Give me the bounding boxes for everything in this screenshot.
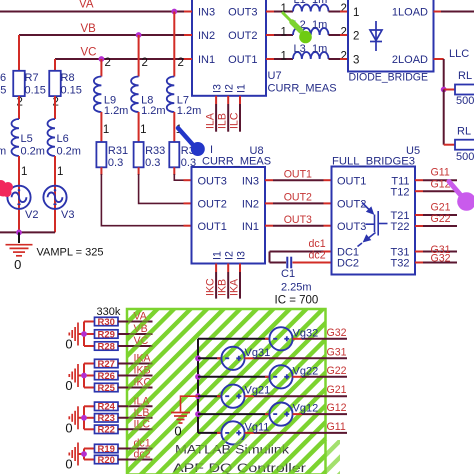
svg-text:T32: T32	[391, 258, 410, 270]
svg-text:R7: R7	[25, 72, 39, 84]
pin stub U7 OUT row L1	[266, 11, 274, 13]
wire Vg11 to net	[254, 432, 347, 434]
wire bus to Vg11	[198, 432, 221, 434]
svg-text:T22: T22	[391, 221, 410, 233]
inductor L8	[131, 77, 139, 113]
wire net IKC	[215, 272, 217, 299]
hatch overlay above controller caption text	[168, 440, 340, 474]
pin stub U7 OUT row L3	[266, 58, 274, 60]
wire net OUT2	[273, 202, 324, 204]
svg-text:LLC: LLC	[449, 48, 469, 60]
svg-text:G22: G22	[327, 365, 347, 377]
wire R35 to U8 OUT3	[174, 174, 183, 180]
pin stub U5 DC1	[324, 251, 332, 253]
pin stub R35 to U8 OUT3	[184, 179, 192, 181]
svg-text:R31: R31	[108, 145, 128, 157]
wire net G11	[423, 179, 457, 181]
blue pen cursor annotation	[178, 128, 205, 156]
pin stub diode bridge	[340, 34, 348, 36]
svg-text:0.3: 0.3	[145, 157, 160, 169]
wire Vg22 to net	[302, 376, 347, 378]
wire U7 to L1	[274, 11, 293, 13]
svg-text:I2: I2	[224, 84, 236, 93]
wire net dc1 to controller	[118, 448, 153, 450]
svg-text:G32: G32	[431, 253, 451, 265]
wire Vg21 to net	[254, 395, 347, 397]
svg-text:ILC: ILC	[229, 112, 241, 129]
wire VB to R7	[18, 35, 20, 71]
svg-text:0.3: 0.3	[108, 157, 123, 169]
ground 0 (sources)	[6, 245, 33, 256]
resistor R33	[134, 142, 144, 167]
wire R8 to L6	[54, 96, 56, 119]
resistor R28	[95, 342, 119, 350]
svg-text:G11: G11	[327, 421, 346, 433]
group dc1 dc2 wiring	[78, 449, 84, 460]
wire to resistor	[84, 345, 95, 347]
pin stub Vg12 plus	[293, 413, 302, 415]
wire 2LOAD down	[443, 59, 445, 90]
green hatched controller block background	[127, 309, 326, 474]
svg-text:0: 0	[14, 257, 21, 272]
svg-text:IN1: IN1	[198, 54, 215, 66]
svg-text:R6: R6	[0, 72, 6, 84]
svg-text:Vg32: Vg32	[293, 327, 319, 339]
pin stub Vg32 minus	[265, 338, 269, 340]
resistor R35	[169, 142, 179, 167]
wire to resistor	[84, 448, 95, 450]
svg-text:R26: R26	[97, 371, 114, 382]
svg-text:0.2m: 0.2m	[57, 146, 81, 158]
pin stub U5 right	[415, 225, 423, 227]
svg-text:OUT1: OUT1	[228, 54, 257, 66]
pin stub U7 bottom	[227, 96, 229, 104]
wire L2 to diode bridge	[329, 34, 341, 36]
pin stub Vg22 plus	[293, 376, 302, 378]
wire net OUT1	[273, 179, 324, 181]
wire net ILB to controller	[118, 417, 153, 419]
inductor L1	[293, 5, 329, 12]
svg-text:OUT1: OUT1	[198, 221, 227, 233]
svg-text:R33: R33	[145, 145, 165, 157]
wire dc2 to C1	[270, 262, 287, 264]
svg-text:CURR_MEAS: CURR_MEAS	[202, 156, 271, 168]
svg-text:0.15: 0.15	[25, 85, 46, 97]
resistor R29	[95, 330, 119, 338]
svg-text:1: 1	[281, 27, 287, 39]
wire net ILA	[215, 104, 217, 132]
inductor L2	[293, 28, 329, 35]
resistor RL2 (cut at edge)	[455, 140, 474, 150]
inductor L7	[167, 77, 174, 113]
svg-text:VA: VA	[79, 0, 94, 11]
resistor R30	[95, 317, 119, 325]
svg-text:FULL_BRIDGE3: FULL_BRIDGE3	[332, 156, 415, 168]
svg-text:RL: RL	[457, 126, 471, 138]
wire net ILA to controller	[118, 405, 153, 407]
voltage source V3	[43, 186, 66, 209]
wire L7 to R35	[173, 112, 175, 142]
wire L1 to diode bridge	[329, 11, 341, 13]
junction bus	[195, 374, 201, 380]
svg-text:2: 2	[105, 57, 111, 69]
svg-text:V2: V2	[25, 209, 38, 221]
dc source Vg31	[221, 347, 244, 370]
resistor RL1 (cut at edge)	[455, 85, 474, 95]
wire net IKB	[227, 272, 229, 299]
wire to resistor	[84, 363, 95, 365]
pin stub U8 bottom	[215, 264, 217, 273]
junction RL loads	[441, 87, 447, 93]
svg-text:1LOAD: 1LOAD	[392, 7, 428, 19]
junction group ILA ILB ILC	[81, 415, 87, 421]
svg-text:IKA: IKA	[229, 278, 241, 296]
wire bus to Vg12	[198, 413, 269, 415]
svg-text:G21: G21	[327, 384, 347, 396]
wire Vg31 to net	[254, 357, 347, 359]
svg-text:2: 2	[341, 3, 347, 15]
wire net ILC	[239, 104, 241, 132]
pin stub U7 OUT row L2	[266, 34, 274, 36]
wire Vg12 to net	[302, 413, 347, 415]
wire net IKC to controller	[118, 387, 153, 389]
wire down to L8	[138, 35, 140, 77]
wire net VC to controller	[118, 345, 153, 347]
svg-text:I1: I1	[212, 251, 224, 260]
voltage source V2	[7, 186, 30, 209]
wire to resistor	[84, 428, 95, 430]
svg-text:0: 0	[65, 337, 72, 352]
pin stub U7 left	[184, 58, 192, 60]
wire net VA to controller	[118, 321, 153, 323]
pin stub U8 bottom	[227, 264, 229, 273]
svg-text:CURR_MEAS: CURR_MEAS	[268, 83, 337, 95]
svg-text:IC = 700: IC = 700	[275, 295, 319, 307]
svg-text:1: 1	[103, 124, 109, 136]
svg-text:1m: 1m	[312, 19, 327, 31]
svg-text:L3: L3	[294, 43, 306, 55]
inductor L3	[293, 52, 329, 59]
svg-text:R27: R27	[97, 359, 114, 370]
ground 0 (group IKA IKB IKC)	[69, 364, 78, 387]
pin stub 2LOAD	[434, 58, 444, 60]
junction bus	[195, 393, 201, 399]
wire net VB to controller	[118, 333, 153, 335]
svg-text:ILB: ILB	[217, 113, 229, 129]
svg-text:OUT3: OUT3	[198, 175, 227, 187]
junction group dc1 dc2	[81, 451, 87, 457]
dc source Vg12	[269, 403, 292, 426]
svg-text:Vg31: Vg31	[245, 347, 271, 359]
inductor L9	[94, 77, 102, 113]
svg-text:VC: VC	[81, 47, 97, 59]
wire R33 to U8 OUT2	[139, 174, 184, 203]
svg-text:2LOAD: 2LOAD	[392, 54, 428, 66]
svg-text:C1: C1	[281, 268, 295, 280]
svg-text:I3: I3	[212, 84, 224, 93]
red marker blob annotation	[0, 180, 13, 197]
pin stub U7 bottom	[215, 96, 217, 104]
svg-text:DIODE_BRIDGE: DIODE_BRIDGE	[349, 72, 429, 84]
svg-text:IN1: IN1	[242, 221, 259, 233]
junction bus	[195, 411, 201, 417]
svg-text:I3: I3	[236, 251, 248, 260]
pin stub U5 left	[324, 179, 332, 181]
wire to RL2	[444, 144, 455, 146]
svg-text:OUT3: OUT3	[228, 7, 257, 19]
svg-text:1.2m: 1.2m	[177, 105, 201, 117]
svg-text:2.25m: 2.25m	[281, 282, 312, 294]
pin stub U5 right	[415, 251, 423, 253]
pin stub U8 bottom	[239, 264, 241, 273]
svg-text:G22: G22	[431, 213, 451, 225]
pin stub U5 right	[415, 190, 423, 192]
svg-text:0.15: 0.15	[61, 85, 82, 97]
svg-text:I1: I1	[236, 84, 248, 93]
svg-text:OUT3: OUT3	[337, 221, 366, 233]
svg-text:1: 1	[140, 124, 146, 136]
wire to resistor	[84, 321, 95, 323]
wire R31 to U8 OUT1 stub	[100, 167, 102, 175]
svg-text:VB: VB	[81, 23, 97, 35]
svg-text:2: 2	[341, 51, 347, 63]
pin stub Vg11 plus	[245, 432, 254, 434]
svg-text:T12: T12	[391, 186, 410, 198]
svg-text:R8: R8	[61, 72, 75, 84]
wire net dc2 to controller	[118, 459, 153, 461]
wire to resistor	[84, 417, 95, 419]
junction net to L8	[136, 32, 142, 38]
svg-text:ILA: ILA	[205, 112, 217, 129]
wire net VC	[55, 58, 192, 60]
pin stub U7 bottom	[239, 96, 241, 104]
svg-text:2: 2	[341, 27, 347, 39]
svg-text:V3: V3	[61, 209, 74, 221]
wire R33 to U8 OUT2 stub	[138, 167, 140, 175]
pin stub U5 DC2	[324, 262, 332, 264]
wire down to L9	[100, 59, 102, 77]
wire bus to Vg31	[198, 357, 221, 359]
svg-text:R28: R28	[97, 341, 114, 352]
junction group IKA IKB IKC	[81, 373, 87, 379]
resistor R26	[95, 371, 119, 379]
pin stub U7 left	[184, 34, 192, 36]
wire L8 to R33	[138, 112, 140, 142]
svg-text:R23: R23	[97, 413, 114, 424]
svg-text:L1: L1	[294, 0, 306, 6]
transistor symbol inside U5	[358, 203, 388, 247]
svg-text:L6: L6	[57, 133, 69, 145]
wire dc loop vertical	[269, 252, 271, 263]
svg-text:G32: G32	[327, 327, 347, 339]
wire L3 to diode bridge	[329, 58, 341, 60]
group IKA IKB IKC wiring	[78, 364, 84, 388]
wire to resistor	[84, 405, 95, 407]
svg-text:G12: G12	[327, 402, 347, 414]
wire to resistor	[84, 375, 95, 377]
svg-text:R25: R25	[97, 383, 115, 394]
wire net G32	[423, 262, 457, 264]
svg-text:OUT2: OUT2	[228, 30, 257, 42]
wire bus to Vg22	[198, 376, 269, 378]
IC block DIODE_BRIDGE	[348, 0, 434, 72]
wire junction to RL1	[444, 89, 455, 91]
svg-text:1m: 1m	[312, 0, 327, 6]
svg-text:IN3: IN3	[242, 175, 259, 187]
svg-text:1: 1	[281, 51, 287, 63]
svg-text:VAMPL = 325: VAMPL = 325	[37, 247, 104, 259]
svg-text:I: I	[210, 144, 213, 156]
svg-text:U7: U7	[268, 70, 282, 82]
resistor R7	[13, 71, 25, 96]
ground 0 (group dc1 dc2)	[69, 443, 78, 466]
svg-text:2: 2	[142, 57, 148, 69]
pin stub U5 right	[415, 262, 423, 264]
svg-text:IKB: IKB	[217, 279, 229, 296]
wire down to L7	[173, 12, 175, 77]
svg-text:1: 1	[21, 166, 27, 178]
svg-text:OUT1: OUT1	[284, 168, 312, 180]
wire net G21	[423, 214, 457, 216]
svg-text:0: 0	[65, 457, 72, 472]
group VA VB VC wiring	[78, 322, 84, 347]
svg-text:RL: RL	[458, 70, 472, 82]
wire bus to Vg21	[198, 395, 221, 397]
svg-text:Vg12: Vg12	[293, 403, 319, 415]
svg-text:R29: R29	[97, 329, 114, 340]
svg-text:OUT1: OUT1	[337, 175, 366, 187]
pin stub U8 right	[265, 202, 273, 204]
IC block U7 CURR_MEAS	[192, 0, 266, 96]
pin stub diode bridge	[340, 58, 348, 60]
svg-text:1m: 1m	[312, 43, 327, 55]
pin stub Vg21 minus	[217, 395, 221, 397]
svg-text:2: 2	[178, 57, 184, 69]
wire net OUT3	[273, 225, 324, 227]
resistor R23	[95, 414, 119, 422]
pin stub U5 right	[415, 214, 423, 216]
wire VC to R8	[54, 59, 56, 71]
svg-text:1.2m: 1.2m	[141, 105, 165, 117]
pin stub Vg31 minus	[217, 357, 221, 359]
wire net VA	[0, 11, 192, 13]
ground 0 (group VA VB VC)	[69, 323, 78, 346]
svg-text:m: m	[0, 146, 6, 158]
junction net to L9	[99, 56, 105, 62]
resistor R8	[49, 71, 61, 96]
inductor L5	[12, 119, 19, 156]
junction bus	[195, 355, 201, 361]
wire L6 through V3 to bus	[54, 156, 56, 232]
resistor R19	[95, 444, 119, 452]
wire R35 to U8 OUT3 stub	[173, 167, 175, 175]
hatch overlay above net label strip	[128, 311, 155, 474]
junction net to L7	[171, 9, 177, 15]
svg-text:R19: R19	[97, 444, 114, 455]
wire R31 to U8 OUT1	[101, 174, 183, 226]
IC block U5 FULL_BRIDGE3	[332, 167, 416, 275]
svg-text:I2: I2	[224, 251, 236, 260]
wire net G22	[423, 225, 457, 227]
svg-text:R22: R22	[97, 425, 114, 436]
svg-text:0.15: 0.15	[0, 85, 6, 97]
svg-text:IN2: IN2	[198, 30, 215, 42]
pin stub Vg12 minus	[265, 413, 269, 415]
svg-text:0: 0	[65, 420, 72, 435]
svg-text:G21: G21	[431, 202, 451, 214]
pin stub R31 to U8 OUT1	[184, 225, 192, 227]
pin stub U5 left	[324, 202, 332, 204]
wire bus to Vg32	[198, 338, 269, 340]
pin stub Vg32 plus	[293, 338, 302, 340]
pin stub Vg31 plus	[245, 357, 254, 359]
wire to resistor	[84, 459, 95, 461]
svg-text:OUT2: OUT2	[337, 199, 366, 211]
wire net VB	[19, 34, 192, 36]
wire net G12	[423, 190, 457, 192]
group ILA ILB ILC wiring	[78, 406, 84, 429]
pin stub U8 right	[265, 179, 273, 181]
resistor R25	[95, 383, 119, 391]
svg-text:G31: G31	[327, 346, 347, 358]
pin stub Vg11 minus	[217, 432, 221, 434]
ground 0 (group ILA ILB ILC)	[69, 406, 78, 429]
resistor R20	[95, 455, 119, 463]
ground 0 (controller)	[171, 413, 190, 424]
svg-text:0: 0	[65, 378, 72, 393]
wire net IKA to controller	[118, 363, 153, 365]
pin stub U5 left	[324, 225, 332, 227]
svg-text:R20: R20	[97, 455, 114, 466]
wire bus to controller ground	[181, 396, 199, 411]
wire U7 to L2	[274, 34, 293, 36]
resistor R31	[96, 142, 106, 167]
wire junction down to RL2	[443, 90, 445, 145]
svg-text:DC2: DC2	[337, 258, 359, 270]
wire net ILB	[227, 104, 229, 132]
resistor R24	[95, 402, 119, 410]
svg-text:1: 1	[57, 166, 63, 178]
svg-text:0.2m: 0.2m	[21, 146, 45, 158]
wire U7 to L3	[274, 58, 293, 60]
wire to resistor	[84, 333, 95, 335]
pin stub 1LOAD	[434, 11, 442, 13]
wire net G31	[423, 251, 457, 253]
wire net IKB to controller	[118, 375, 153, 377]
controller source bus	[197, 339, 199, 433]
pin stub Vg21 plus	[245, 395, 254, 397]
svg-text:3: 3	[353, 55, 359, 67]
svg-text:G11: G11	[431, 167, 450, 179]
wire L5 through V2 to bus	[18, 156, 20, 232]
svg-text:OUT2: OUT2	[284, 192, 312, 204]
dc source Vg11	[221, 421, 244, 444]
IC block U8 CURR_MEAS	[192, 167, 266, 264]
svg-text:Vg21: Vg21	[245, 385, 271, 397]
svg-text:dc1: dc1	[309, 238, 326, 250]
svg-text:OUT2: OUT2	[198, 199, 227, 211]
svg-text:IN2: IN2	[242, 199, 259, 211]
dc source Vg22	[269, 365, 292, 388]
diode symbol inside DIODE_BRIDGE	[370, 21, 382, 51]
resistor R27	[95, 359, 119, 367]
wire net IKA	[239, 272, 241, 299]
pin stub U7 left	[184, 11, 192, 13]
svg-text:dc2: dc2	[309, 250, 326, 262]
dc source Vg21	[221, 385, 244, 408]
wire net ILC to controller	[118, 428, 153, 430]
svg-text:1.2m: 1.2m	[104, 105, 128, 117]
